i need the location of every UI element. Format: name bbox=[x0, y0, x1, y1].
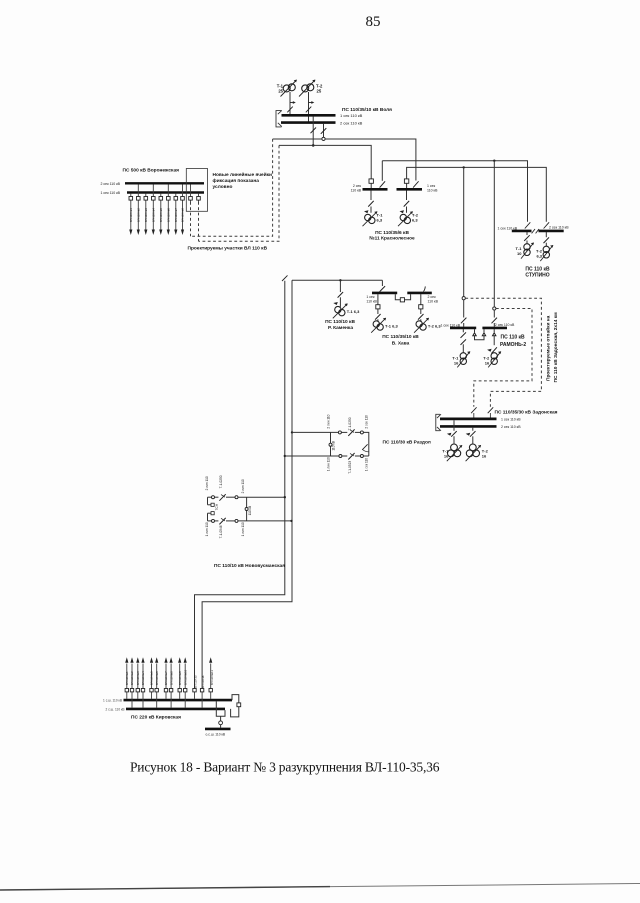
svg-text:ПС 500 кВ Воронежская: ПС 500 кВ Воронежская bbox=[123, 168, 180, 174]
busbar 1 sek (Khava) bbox=[372, 292, 397, 295]
wire bbox=[363, 455, 368, 457]
rotated labels (Razdol) bbox=[326, 414, 368, 473]
isolator circle bbox=[212, 496, 215, 499]
breaker square new cell 1 bbox=[189, 197, 193, 201]
feeder line 8 bbox=[182, 184, 184, 230]
transformer branch T-2 (Zadonskaya) bbox=[470, 428, 476, 444]
svg-text:25: 25 bbox=[317, 89, 322, 94]
wire line A left (to projected dashed) bbox=[273, 138, 322, 140]
feeder b2 bbox=[131, 664, 133, 708]
bus bracket left (Zadonskaya) bbox=[436, 414, 441, 431]
svg-text:ВЛ-110 №3: ВЛ-110 №3 bbox=[144, 208, 148, 222]
transformer T-2 (Stupino) bbox=[540, 245, 553, 261]
svg-text:6,3: 6,3 bbox=[536, 253, 542, 258]
svg-text:2 сек 110 кВ: 2 сек 110 кВ bbox=[495, 323, 515, 327]
svg-text:ПС 110/35/30 кВ Задонская: ПС 110/35/30 кВ Задонская bbox=[495, 410, 558, 416]
rotated labels (Novousmanskaya) bbox=[205, 475, 252, 538]
wire bbox=[342, 455, 347, 457]
transformer T-2 (Ramon) bbox=[488, 352, 501, 368]
transformer T-1 (Kamenka) bbox=[333, 304, 348, 319]
svg-text:16: 16 bbox=[485, 361, 490, 366]
disconnector arrows on T-2 lead bbox=[306, 103, 313, 113]
wire line A right to corner bbox=[325, 139, 416, 181]
busbar 1 sek (Ramon) bbox=[450, 327, 476, 330]
breaker square f4 bbox=[152, 197, 156, 201]
feeder line 4 bbox=[152, 184, 154, 230]
busbar 1 sek (right) bbox=[397, 188, 423, 191]
lower tap wire bbox=[208, 520, 212, 522]
wire lower tap bbox=[285, 455, 339, 457]
transformer T-2 (Krasnolesnoe) bbox=[398, 212, 413, 227]
wire bus drop to open circle bbox=[321, 124, 327, 137]
busbar 2 sek 110 kV (Volya) bbox=[281, 121, 336, 124]
svg-text:6,3: 6,3 bbox=[377, 217, 383, 222]
breaker cell square left bbox=[369, 179, 373, 183]
up arrow b2 bbox=[130, 657, 133, 663]
arrow f7 bbox=[174, 230, 177, 236]
svg-text:110 кВ: 110 кВ bbox=[427, 189, 438, 193]
new cell line 2 bbox=[198, 194, 200, 202]
up arrow b8 bbox=[170, 657, 173, 663]
svg-text:2 сек 110 кВ: 2 сек 110 кВ bbox=[501, 425, 521, 429]
busbar 1 s.sh. 110 kV bbox=[124, 699, 233, 702]
breaker square f5 bbox=[159, 197, 163, 201]
disconnector slash left bus (net C start) bbox=[380, 161, 386, 188]
svg-text:В. Хава: В. Хава bbox=[392, 340, 410, 346]
junction dot net D / Ramon feeder bbox=[463, 166, 465, 168]
open slash top of line 1 bbox=[282, 275, 288, 281]
isolator circle bbox=[360, 455, 363, 458]
wire down to Ramon bar1 bbox=[463, 167, 465, 296]
wire upper tap bbox=[292, 431, 338, 433]
busbar 2 s.sh. 110 kV bbox=[126, 708, 225, 711]
transformer branch left (T-1) bbox=[368, 191, 374, 213]
isolator circle bbox=[235, 519, 238, 522]
feeder line 2 bbox=[137, 184, 139, 230]
svg-text:ВЛ 110 №6: ВЛ 110 №6 bbox=[155, 671, 159, 685]
junction dot on line 2 bbox=[291, 431, 293, 433]
svg-text:1 лин 110: 1 лин 110 bbox=[205, 522, 209, 536]
arrow f2 bbox=[137, 230, 140, 236]
feeder line 3 bbox=[145, 194, 147, 231]
dashed projected tap outer (to Zadonskaya) bbox=[465, 298, 541, 407]
feeder b13 bbox=[210, 664, 212, 699]
svg-text:ВЛ-110 №1: ВЛ-110 №1 bbox=[129, 208, 133, 222]
breaker square T-2 bbox=[419, 305, 423, 309]
disconnector upper bbox=[219, 494, 225, 501]
svg-text:Т-1 6,3: Т-1 6,3 bbox=[385, 323, 398, 328]
svg-text:ПС 110/10 кВ: ПС 110/10 кВ bbox=[325, 319, 355, 325]
svg-text:ВЛ-110 №8: ВЛ-110 №8 bbox=[181, 208, 185, 222]
bus coupler bay right bbox=[231, 695, 239, 717]
transformer T-2 (Khava) bbox=[414, 318, 429, 333]
breaker square f8 bbox=[181, 197, 185, 201]
transformer T-1 (Khava) bbox=[371, 318, 386, 333]
transformer branch T-1 (Zadonskaya) bbox=[451, 420, 457, 444]
svg-text:ВЛ 110 №2: ВЛ 110 №2 bbox=[130, 671, 134, 685]
breaker square f7 bbox=[174, 197, 178, 201]
svg-text:ВЛ 110 №11: ВЛ 110 №11 bbox=[210, 670, 214, 685]
busbar 2 sek (Ramon) bbox=[482, 327, 507, 330]
net C wire to Stupino bbox=[382, 161, 527, 222]
wire cell right to bus bbox=[406, 183, 408, 188]
svg-text:ПС 110/35/10 кВ Воля: ПС 110/35/10 кВ Воля bbox=[342, 107, 392, 113]
svg-text:ПС 110 кВ: ПС 110 кВ bbox=[501, 335, 526, 341]
svg-text:фиксация показана: фиксация показана bbox=[213, 177, 260, 184]
disconnector arrows on T-1 lead bbox=[287, 103, 294, 113]
arrow f1 bbox=[129, 230, 132, 236]
svg-text:1 лин 110: 1 лин 110 bbox=[326, 457, 330, 471]
svg-text:СТУПИНО: СТУПИНО bbox=[525, 273, 549, 279]
sectionalizer slashes bbox=[532, 229, 539, 233]
breaker square b2 bbox=[130, 689, 133, 692]
up arrow b6 bbox=[155, 657, 158, 663]
open slash at 2 sek (future line) bbox=[423, 286, 425, 291]
svg-text:110 кВ: 110 кВ bbox=[366, 300, 377, 304]
svg-text:85: 85 bbox=[366, 14, 381, 30]
breaker square b5 bbox=[150, 689, 153, 692]
svg-text:Т-1-0523: Т-1-0523 bbox=[348, 461, 352, 474]
isolator circle bbox=[235, 496, 238, 499]
up arrow b7 bbox=[164, 657, 167, 663]
transformer branch T-2 (Ramon) with breaker bbox=[491, 329, 497, 353]
junction dot line 2 bbox=[290, 520, 292, 522]
svg-text:2 с.ш. 110 кВ: 2 с.ш. 110 кВ bbox=[106, 707, 125, 711]
svg-text:Т-1 6,3: Т-1 6,3 bbox=[347, 309, 360, 314]
svg-text:ВЛ-110 №4: ВЛ-110 №4 bbox=[151, 208, 155, 222]
disconnector slash left feeder bbox=[525, 222, 531, 228]
svg-text:ВЛ 110 №9: ВЛ 110 №9 bbox=[178, 671, 182, 685]
left loop with station transformers bbox=[208, 497, 212, 521]
feeder b9 bbox=[179, 664, 181, 699]
transformer T-2 lead wire bbox=[308, 92, 310, 122]
transformer T-2 bbox=[299, 80, 315, 97]
feeder b4 bbox=[142, 664, 144, 708]
svg-text:2 сек: 2 сек bbox=[353, 184, 362, 188]
feeder b5 bbox=[151, 664, 153, 699]
new cell line 1 bbox=[190, 184, 192, 202]
svg-text:2 лин 110: 2 лин 110 bbox=[241, 479, 245, 493]
arrow f8 bbox=[181, 230, 184, 236]
svg-text:ВЛ 110 №1: ВЛ 110 №1 bbox=[125, 671, 129, 685]
station transformer squares bbox=[211, 503, 214, 506]
svg-text:2 сек: 2 сек bbox=[428, 295, 437, 299]
slash + connection to bar bbox=[488, 407, 494, 417]
wire bbox=[355, 431, 361, 433]
mid vertical tie with isolator bbox=[330, 432, 332, 456]
wire line 2 vertical bbox=[202, 280, 292, 688]
open circle tap node (line 2) bbox=[493, 307, 496, 310]
isolator circle mid bbox=[329, 443, 332, 446]
busbar 1 sek 110 kV (Volya) bbox=[282, 114, 336, 117]
wire line 1 vertical bbox=[195, 281, 285, 689]
svg-text:2 сек 110: 2 сек 110 bbox=[364, 415, 368, 429]
bypass feeder with breaker bbox=[220, 716, 222, 727]
breaker square T-1 bbox=[376, 305, 380, 309]
up arrow b13 bbox=[209, 657, 212, 663]
breaker square f6 bbox=[167, 197, 171, 201]
wire cell left to bus bbox=[370, 183, 372, 188]
feeder b1 bbox=[126, 664, 128, 699]
breaker square b1 bbox=[125, 689, 128, 692]
svg-text:Проектируемые отпайки на: Проектируемые отпайки на bbox=[545, 315, 552, 381]
transformer branch T-2 (Stupino) bbox=[544, 232, 550, 246]
busbar 2 sek (left) bbox=[363, 188, 388, 191]
svg-text:110 кВ: 110 кВ bbox=[248, 506, 252, 516]
page bottom scan edge darker left part bbox=[0, 887, 330, 890]
svg-text:Т-1-0546: Т-1-0546 bbox=[219, 525, 223, 538]
bottom feeders bbox=[127, 664, 211, 708]
isolator circle bbox=[212, 519, 215, 522]
breaker square f3 bbox=[144, 197, 148, 201]
svg-text:ПС 220 кВ Кировская: ПС 220 кВ Кировская bbox=[131, 715, 181, 721]
busbar 1 sek bbox=[440, 417, 497, 420]
feeder b7 bbox=[165, 664, 167, 699]
svg-text:ВЛ 110 №8: ВЛ 110 №8 bbox=[169, 671, 173, 685]
bus tie with breaker square (Khava) bbox=[395, 294, 410, 300]
page bottom scan edge bbox=[0, 884, 640, 891]
up arrow b4 bbox=[141, 657, 144, 663]
svg-text:2 сек 110 кВ: 2 сек 110 кВ bbox=[340, 120, 363, 125]
branch slash on right vertical bbox=[362, 444, 369, 452]
wire bbox=[355, 455, 361, 457]
wire down to Ramon bar2 bbox=[493, 161, 495, 307]
junction dot on line 1 bbox=[284, 455, 286, 457]
feeder b8 bbox=[170, 664, 172, 708]
bus bracket left (Volya) bbox=[276, 110, 282, 127]
svg-text:ТСН: ТСН bbox=[215, 503, 219, 510]
svg-text:ВЛ 110 №10: ВЛ 110 №10 bbox=[183, 669, 187, 685]
wire to line 2 bbox=[238, 520, 292, 522]
wire bbox=[226, 520, 235, 522]
transformer T-1 (Krasnolesnoe) bbox=[363, 212, 378, 227]
open circle node A bbox=[322, 137, 325, 140]
breaker square b9 bbox=[178, 689, 181, 692]
svg-text:Новые линейные ячейки: Новые линейные ячейки bbox=[213, 171, 273, 178]
junction dot net C / Ramon feeder bbox=[493, 160, 495, 162]
upper tap wire bbox=[208, 496, 212, 498]
svg-text:1 сек: 1 сек bbox=[366, 295, 375, 299]
disconnector slash right feeder bbox=[544, 222, 550, 228]
svg-text:10: 10 bbox=[517, 251, 522, 256]
svg-text:ВЛ 110-35: ВЛ 110-35 bbox=[194, 675, 198, 688]
feeder line 6 bbox=[167, 184, 169, 230]
feeder b6 bbox=[156, 664, 158, 708]
svg-text:1 сек 110 кВ: 1 сек 110 кВ bbox=[340, 113, 363, 118]
svg-text:1 сек 110 кВ: 1 сек 110 кВ bbox=[501, 418, 521, 422]
svg-text:2 сек 110 кВ: 2 сек 110 кВ bbox=[100, 182, 120, 186]
up arrow b10 bbox=[184, 657, 187, 663]
transformer T-2 (Zadonskaya, 3-winding) bbox=[466, 444, 481, 461]
isolator circle bbox=[338, 431, 341, 434]
wire to right corner bbox=[363, 432, 368, 456]
feeder b10 bbox=[184, 664, 186, 708]
svg-text:ВЛ-110 №6: ВЛ-110 №6 bbox=[166, 208, 170, 222]
svg-text:Проектируемы участки ВЛ 110 кВ: Проектируемы участки ВЛ 110 кВ bbox=[188, 246, 268, 252]
dashed projected line segment 2 bbox=[199, 145, 280, 241]
arrow f6 bbox=[167, 230, 170, 236]
svg-text:ПС 110 кВ: ПС 110 кВ bbox=[525, 266, 550, 272]
dashed drop from new cell 1 bbox=[190, 202, 192, 236]
svg-text:ВЛ 110 №4: ВЛ 110 №4 bbox=[141, 671, 145, 685]
wire bbox=[215, 496, 219, 498]
transformer T-1 (Zadonskaya, 3-winding) bbox=[447, 444, 462, 461]
svg-text:1 лин 110: 1 лин 110 bbox=[241, 522, 245, 536]
wire cell right up and net D to Stupino bbox=[407, 167, 547, 221]
svg-text:16: 16 bbox=[454, 361, 459, 366]
arrow f4 bbox=[152, 230, 155, 236]
svg-text:2 лин 110: 2 лин 110 bbox=[205, 476, 209, 490]
open circle tap node (line 1) bbox=[462, 297, 465, 300]
isolator circle bbox=[339, 455, 342, 458]
wire to bar2 with slash bbox=[492, 310, 498, 327]
svg-text:16: 16 bbox=[482, 453, 487, 458]
junction dot Kamenka tap bbox=[339, 279, 341, 281]
svg-text:1 сек 110: 1 сек 110 bbox=[364, 458, 368, 472]
coupler breaker square bbox=[237, 703, 241, 707]
feeder b3 bbox=[137, 664, 139, 699]
bypass busbar o.s.sh. 110 kV bbox=[205, 728, 231, 731]
svg-text:условно: условно bbox=[213, 185, 233, 190]
transformer branch right (T-2) bbox=[404, 191, 410, 213]
junction dot line 1 bbox=[284, 496, 286, 498]
svg-text:Р. Каменка: Р. Каменка bbox=[328, 325, 353, 331]
breaker square b6 bbox=[155, 689, 158, 692]
transfer connection bbox=[216, 701, 225, 716]
busbar 2 sek (Stupino right) bbox=[539, 230, 564, 233]
feeder line 7 bbox=[175, 194, 177, 231]
busbar 2 sek (Khava) bbox=[407, 292, 432, 295]
transformer T-1 lead wire bbox=[289, 92, 291, 114]
Voronezh feeders bbox=[131, 184, 199, 230]
svg-text:25: 25 bbox=[278, 89, 283, 94]
isolator circle bbox=[360, 431, 363, 434]
svg-text:ПС 110/10 кВ Нововусманская: ПС 110/10 кВ Нововусманская bbox=[214, 563, 285, 569]
svg-text:ПС 110 кВ Задонская, 2х14 км: ПС 110 кВ Задонская, 2х14 км bbox=[553, 312, 559, 383]
feeder line 1 bbox=[130, 194, 132, 231]
svg-text:Рисунок 18 - Вариант № 3 разук: Рисунок 18 - Вариант № 3 разукрупнения В… bbox=[130, 760, 440, 775]
wire bus drop with disconnector to junction bbox=[311, 116, 317, 145]
disconnector slash upper bbox=[348, 429, 354, 436]
wire line 2 horizontal to Khava bbox=[292, 279, 382, 281]
svg-text:2 лин 110: 2 лин 110 bbox=[326, 414, 330, 428]
svg-text:ВЛ 110 №7: ВЛ 110 №7 bbox=[164, 671, 168, 685]
svg-text:ВЛ-110 №5: ВЛ-110 №5 bbox=[159, 208, 163, 222]
svg-text:110 кВ: 110 кВ bbox=[351, 189, 362, 193]
svg-text:1 сек 110 кВ: 1 сек 110 кВ bbox=[100, 191, 120, 195]
transit feeder b12 bbox=[201, 692, 203, 708]
svg-text:1 сек: 1 сек bbox=[427, 184, 436, 188]
breaker square b10 bbox=[184, 689, 187, 692]
dashed projected line segment 1 bbox=[191, 139, 273, 236]
svg-text:№11 Краснолесное: №11 Краснолесное bbox=[369, 236, 415, 242]
svg-text:2 сек 110 кВ: 2 сек 110 кВ bbox=[549, 226, 569, 230]
up arrow b3 bbox=[136, 657, 139, 663]
svg-text:РАМОНЬ-2: РАМОНЬ-2 bbox=[500, 342, 526, 348]
wire bbox=[226, 496, 235, 498]
breaker cell square right bbox=[404, 179, 408, 183]
svg-text:16: 16 bbox=[444, 453, 449, 458]
svg-text:ВЛ 110 №3: ВЛ 110 №3 bbox=[136, 671, 140, 685]
transformer branch T-1 (Khava) bbox=[375, 294, 381, 322]
transformer branch T-1 (Ramon) bbox=[461, 329, 467, 353]
junction dot node B bbox=[312, 144, 315, 147]
arrow f3 bbox=[144, 230, 147, 236]
wire line B (junction to Krasnolesnoe left cell) bbox=[279, 145, 371, 179]
new line cells box bbox=[186, 169, 207, 212]
svg-text:1 с.ш. 110 кВ: 1 с.ш. 110 кВ bbox=[103, 699, 122, 703]
svg-text:ВЛ 110-36: ВЛ 110-36 bbox=[201, 675, 205, 688]
bypass breaker circle bbox=[219, 721, 223, 725]
svg-text:6,3: 6,3 bbox=[412, 217, 418, 222]
breaker square b12 bbox=[200, 689, 203, 692]
incoming wire with slash bbox=[380, 280, 386, 291]
wire bbox=[341, 431, 347, 433]
breaker square b3 bbox=[136, 689, 139, 692]
feeder line 5 bbox=[160, 194, 162, 231]
wire bbox=[215, 520, 219, 522]
transit feeder b11 bbox=[194, 692, 196, 699]
svg-text:ВЛ-110 №7: ВЛ-110 №7 bbox=[174, 208, 178, 222]
breaker square (Khava tie) bbox=[400, 298, 404, 302]
up arrow b1 bbox=[125, 657, 128, 663]
breaker square b4 bbox=[141, 689, 144, 692]
busbar 1 sek 110 kV (Voronezh) bbox=[127, 191, 204, 193]
busbar 2 sek bbox=[440, 425, 497, 428]
svg-text:Т-2 6,3: Т-2 6,3 bbox=[428, 323, 441, 328]
disconnector slash lower bbox=[348, 453, 354, 460]
svg-text:110 кВ: 110 кВ bbox=[428, 300, 439, 304]
wire to bar1 with slash bbox=[461, 300, 467, 327]
svg-text:1 сек 110 кВ: 1 сек 110 кВ bbox=[441, 324, 461, 328]
breaker square f1 bbox=[129, 197, 133, 201]
svg-text:Т-1-0250: Т-1-0250 bbox=[348, 417, 352, 430]
breaker square b8 bbox=[169, 689, 172, 692]
breaker square b7 bbox=[164, 689, 167, 692]
svg-text:о.с.ш. 110 кВ: о.с.ш. 110 кВ bbox=[206, 732, 226, 736]
transformer T-1 (Stupino) bbox=[521, 243, 534, 259]
svg-text:110 кВ: 110 кВ bbox=[332, 441, 336, 451]
svg-text:ПС 110/35/10 кВ: ПС 110/35/10 кВ bbox=[382, 334, 419, 340]
breaker square new cell 2 bbox=[197, 197, 201, 201]
svg-text:ПС 110/30 кВ Раздол: ПС 110/30 кВ Раздол bbox=[383, 440, 431, 446]
tap wire with disconnector bbox=[338, 280, 344, 307]
svg-text:Т-1-0250: Т-1-0250 bbox=[219, 475, 223, 488]
disconnector slash right bus (line A end) bbox=[413, 181, 419, 187]
svg-text:ВЛ-110 №2: ВЛ-110 №2 bbox=[136, 208, 140, 222]
wire to line 1 bbox=[238, 496, 285, 498]
transformer branch T-1 (Stupino) bbox=[524, 232, 530, 244]
transformer branch T-2 (Khava) bbox=[418, 294, 424, 322]
isolator circle mid bbox=[245, 508, 248, 511]
svg-text:1 сек 110 кВ: 1 сек 110 кВ bbox=[498, 227, 518, 231]
arrow f5 bbox=[159, 230, 162, 236]
disconnector lower bbox=[219, 518, 225, 525]
breaker square b13 bbox=[209, 689, 212, 692]
up arrow b9 bbox=[178, 657, 181, 663]
breaker square b11 bbox=[193, 689, 196, 692]
svg-text:ПС 110/35/6 кВ: ПС 110/35/6 кВ bbox=[375, 230, 409, 236]
svg-text:ВЛ 110 №5: ВЛ 110 №5 bbox=[150, 671, 154, 685]
up arrow b5 bbox=[150, 657, 153, 663]
bus tie U with disconnectors bbox=[473, 329, 486, 340]
transformer T-1 bbox=[281, 80, 297, 97]
breaker square f2 bbox=[137, 197, 141, 201]
transformer T-1 (Ramon) bbox=[457, 352, 470, 368]
busbar 1 sek (Stupino left) bbox=[512, 230, 532, 233]
busbar 2 sek 110 kV (Voronezh) bbox=[125, 182, 204, 184]
dashed drop from new cell 2 bbox=[198, 202, 200, 241]
